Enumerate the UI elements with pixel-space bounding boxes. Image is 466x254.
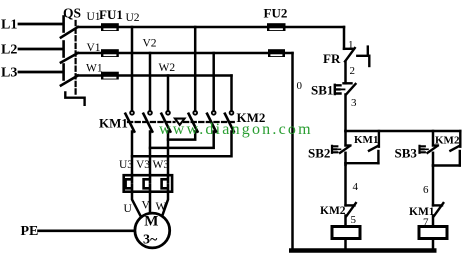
svg-text:SB2: SB2 bbox=[308, 146, 330, 161]
svg-text:L3: L3 bbox=[1, 66, 17, 81]
wire to KM2 coil bbox=[432, 216, 435, 227]
svg-text:SB1: SB1 bbox=[311, 83, 333, 98]
wire node6 down bbox=[432, 166, 435, 206]
coil KM1 bbox=[332, 227, 360, 239]
svg-text:KM1: KM1 bbox=[354, 134, 378, 146]
contactor KM1 NC interlock contact bbox=[433, 203, 443, 216]
linkage dashed KM1-KM2 bbox=[128, 121, 175, 123]
wire neutral 0 down bbox=[291, 53, 294, 250]
linkage triangle marker bbox=[175, 119, 185, 125]
wire control top rail bbox=[346, 130, 461, 133]
fuse FU1 pole 3 bbox=[101, 72, 119, 80]
relay FR NC contact bbox=[344, 48, 355, 62]
wire phase V row bbox=[78, 52, 293, 55]
wire KM2 feed 3 bbox=[230, 76, 233, 112]
svg-text:2: 2 bbox=[350, 65, 356, 77]
relay FR heater element 1 bbox=[126, 175, 132, 192]
wire KM2 out 2 crossover bbox=[150, 132, 214, 148]
wire KM1 coil to rail bbox=[344, 239, 347, 251]
contactor KM2 aux NO contact bbox=[450, 131, 460, 166]
wire V column bbox=[149, 53, 152, 111]
button SB3 actuator E bbox=[420, 146, 429, 153]
fuse FU1 pole 1 bbox=[101, 23, 119, 31]
svg-text:3~: 3~ bbox=[143, 232, 158, 247]
motor M1 circle bbox=[135, 213, 170, 248]
wire KM1 out 1 bbox=[131, 132, 134, 176]
button SB2 actuator E bbox=[332, 146, 341, 153]
svg-text:SB3: SB3 bbox=[395, 146, 418, 161]
svg-text:FU2: FU2 bbox=[264, 6, 288, 21]
fuse FU2 pole 2 bbox=[268, 49, 285, 57]
button SB3 NO contact bbox=[428, 131, 439, 153]
relay FR heater element 3 bbox=[162, 175, 168, 192]
svg-text:L1: L1 bbox=[1, 18, 17, 33]
wire motor U lead bbox=[132, 192, 141, 217]
svg-text:FR: FR bbox=[323, 51, 341, 66]
contactor KM2 main contact 2 bbox=[207, 111, 216, 132]
fuse FU2 pole 1 bbox=[267, 23, 286, 31]
wire to KM1 coil bbox=[344, 216, 347, 227]
contactor KM2 NC interlock contact bbox=[346, 203, 356, 216]
wire KM2 out 3 crossover bbox=[132, 132, 232, 157]
button SB1 NC contact bbox=[344, 83, 356, 94]
svg-text:5: 5 bbox=[351, 214, 357, 226]
svg-text:M: M bbox=[144, 214, 158, 230]
wire KM1 out 3 bbox=[167, 132, 170, 176]
svg-text:V2: V2 bbox=[143, 37, 157, 49]
button SB1 actuator E bbox=[335, 85, 345, 94]
button SB2 NO contact bbox=[340, 131, 351, 153]
wire L1 input bbox=[19, 23, 62, 26]
svg-text:PE: PE bbox=[21, 224, 39, 239]
wire L2 input bbox=[19, 48, 62, 51]
contactor KM1 main contact 3 bbox=[161, 111, 170, 132]
switch QS linkage dashed bbox=[74, 21, 76, 94]
svg-text:KM2: KM2 bbox=[435, 135, 460, 147]
wire SB3 KM2 join bbox=[433, 153, 460, 166]
switch QS pole 3 bbox=[61, 65, 78, 86]
switch QS handle bbox=[65, 92, 84, 104]
wire PE bbox=[39, 230, 135, 233]
wire phase U row bbox=[78, 26, 344, 29]
wire KM1 out 2 bbox=[149, 132, 152, 176]
contactor KM2 main contact 1 bbox=[189, 111, 198, 132]
coil KM2 bbox=[419, 227, 447, 239]
svg-text:U: U bbox=[124, 203, 133, 215]
wire SB1 down bbox=[344, 95, 347, 132]
wire motor W lead bbox=[162, 192, 168, 217]
contactor KM1 main contact 2 bbox=[143, 111, 152, 132]
wire KM2 feed 2 bbox=[212, 53, 215, 111]
switch QS pole 2 bbox=[61, 42, 78, 63]
wire node4 down bbox=[344, 163, 347, 205]
svg-text:0: 0 bbox=[297, 80, 303, 92]
svg-text:U3: U3 bbox=[119, 159, 133, 171]
wire KM2 out 1 crossover bbox=[168, 132, 195, 140]
wire SB2 KM1 join bbox=[346, 153, 379, 165]
svg-text:V1: V1 bbox=[87, 42, 101, 54]
wire KM2 coil to rail bbox=[432, 239, 435, 251]
wire phase W row bbox=[78, 74, 232, 77]
contactor KM1 aux NO contact bbox=[369, 131, 379, 163]
svg-text:3: 3 bbox=[351, 97, 357, 109]
svg-text:L2: L2 bbox=[1, 43, 17, 58]
wire U column bbox=[131, 27, 134, 111]
wire KM2 feed 1 bbox=[194, 27, 197, 111]
svg-text:FU1: FU1 bbox=[99, 7, 123, 22]
wire L3 input bbox=[19, 71, 62, 74]
svg-text:W2: W2 bbox=[159, 62, 176, 74]
wire FR to SB1 bbox=[344, 62, 347, 84]
contactor KM1 main contact 1 bbox=[125, 111, 134, 132]
wire control L down bbox=[343, 27, 346, 49]
svg-text:KM1: KM1 bbox=[409, 206, 435, 218]
svg-text:4: 4 bbox=[353, 181, 359, 193]
wire motor V lead bbox=[149, 192, 152, 213]
relay FR heater element 2 bbox=[144, 175, 150, 192]
switch QS pole 1 bbox=[61, 17, 78, 38]
svg-text:KM1: KM1 bbox=[99, 116, 128, 131]
relay FR heater box bbox=[124, 175, 172, 192]
svg-text:U2: U2 bbox=[126, 12, 140, 24]
wire bottom rail bbox=[291, 248, 434, 252]
svg-text:V3: V3 bbox=[136, 159, 150, 171]
wire W column bbox=[167, 76, 170, 112]
contactor KM2 main contact 3 bbox=[225, 111, 234, 132]
svg-text:KM2: KM2 bbox=[320, 205, 346, 217]
svg-text:6: 6 bbox=[423, 184, 429, 196]
relay FR actuator bracket bbox=[357, 47, 369, 66]
svg-text:W3: W3 bbox=[153, 159, 170, 171]
svg-text:www.diangon.com: www.diangon.com bbox=[159, 121, 313, 138]
svg-text:W1: W1 bbox=[86, 63, 103, 75]
fuse FU1 pole 2 bbox=[101, 49, 119, 57]
svg-text:QS: QS bbox=[63, 6, 81, 21]
